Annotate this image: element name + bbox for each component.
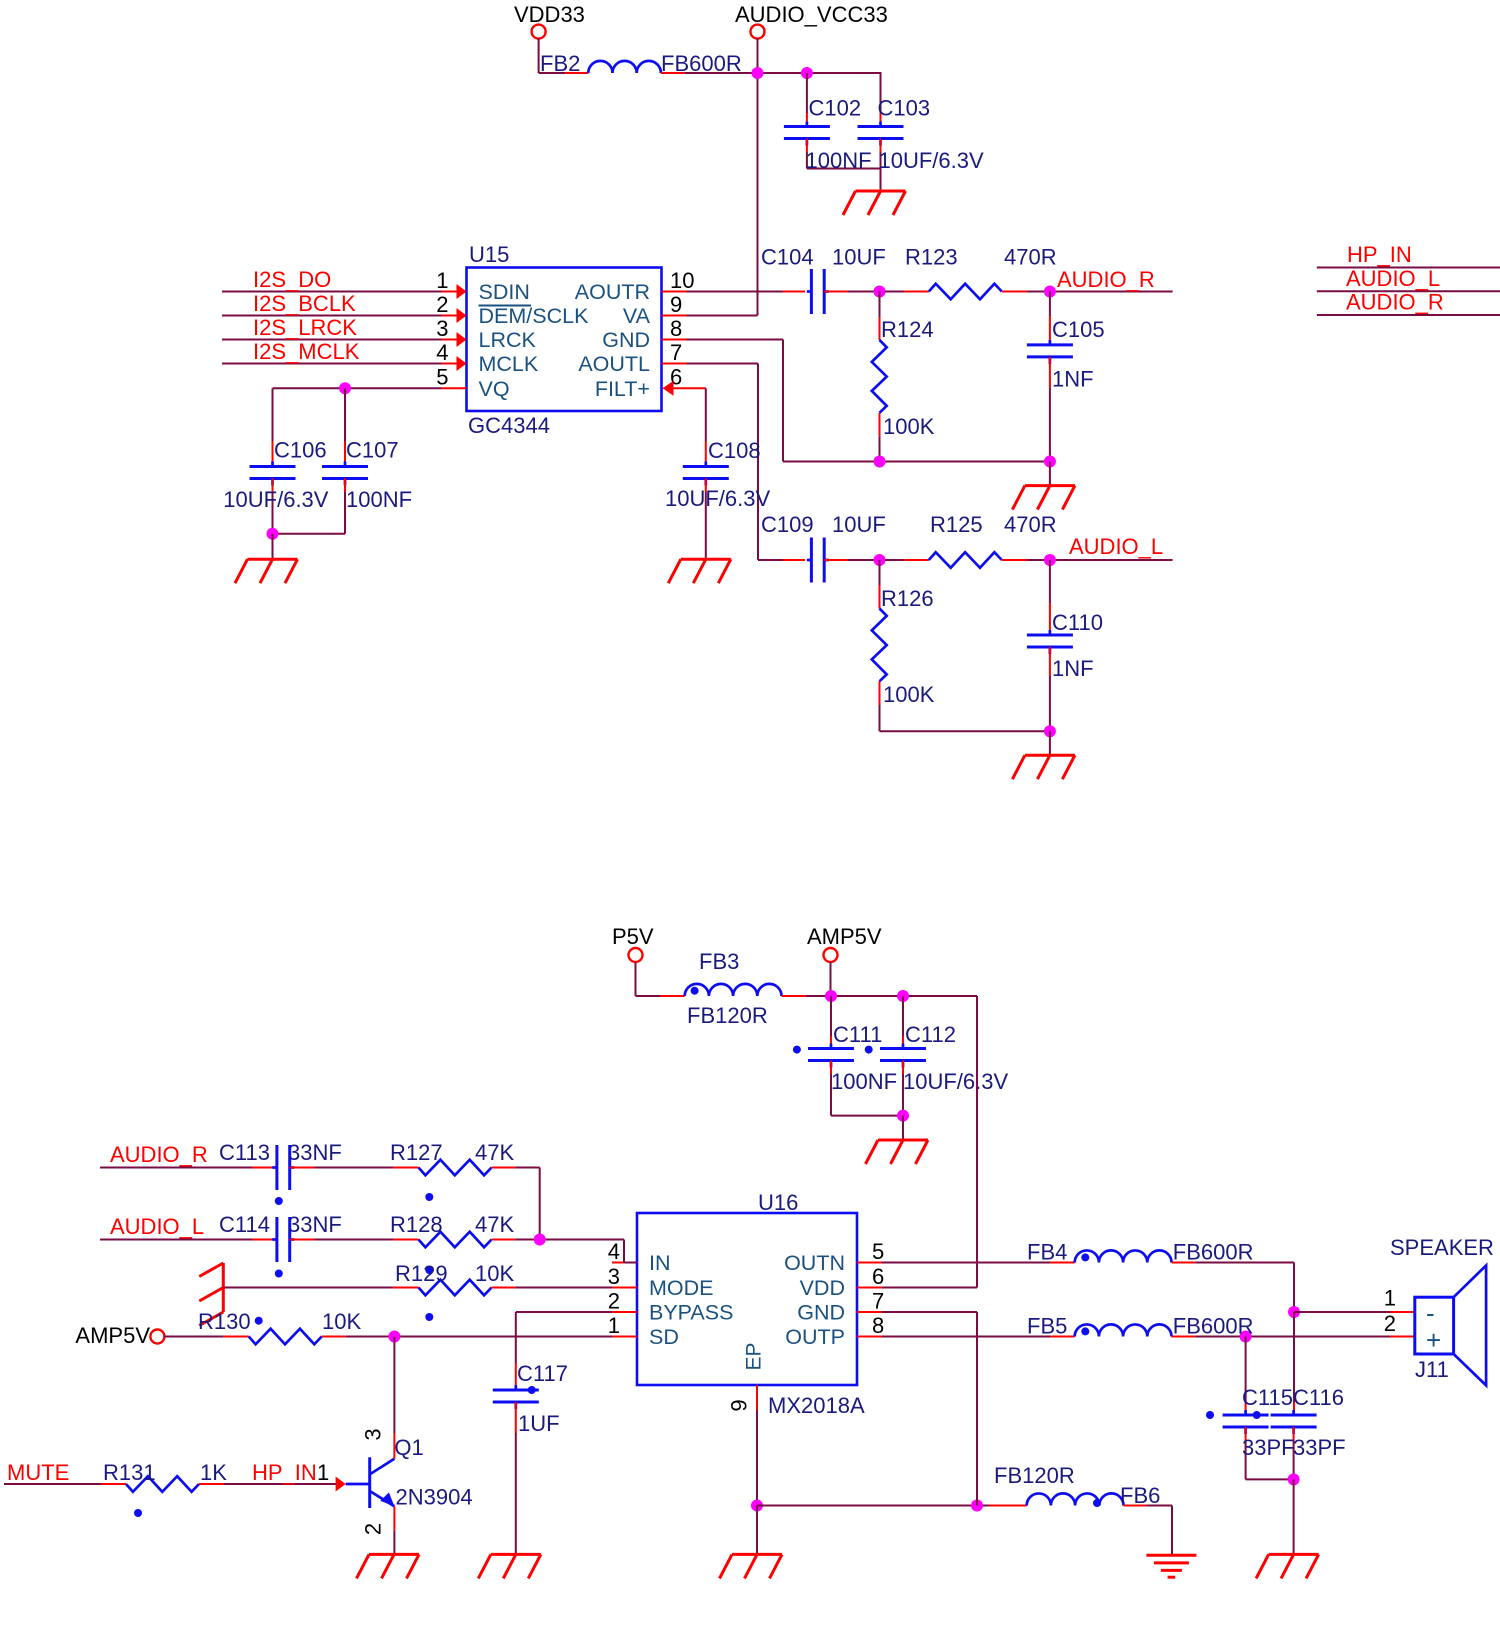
svg-text:DEM/SCLK: DEM/SCLK [479, 304, 590, 328]
svg-text:AUDIO_VCC33: AUDIO_VCC33 [735, 2, 888, 27]
svg-text:10UF/6.3V: 10UF/6.3V [665, 486, 770, 511]
svg-text:10K: 10K [475, 1261, 514, 1286]
svg-text:R125: R125 [930, 512, 983, 537]
svg-text:R131: R131 [103, 1460, 156, 1485]
svg-text:3: 3 [608, 1264, 620, 1289]
svg-text:100NF: 100NF [806, 148, 872, 173]
svg-text:2N3904: 2N3904 [396, 1485, 473, 1510]
svg-text:MODE: MODE [649, 1276, 714, 1300]
svg-text:R126: R126 [881, 586, 934, 611]
svg-text:33NF: 33NF [288, 1140, 342, 1165]
svg-text:1: 1 [317, 1460, 329, 1485]
svg-text:100K: 100K [883, 414, 935, 439]
svg-text:2: 2 [436, 292, 448, 317]
svg-text:9: 9 [727, 1399, 752, 1411]
svg-text:R130: R130 [198, 1309, 251, 1334]
svg-text:C116: C116 [1293, 1385, 1344, 1410]
svg-text:2: 2 [608, 1288, 620, 1313]
svg-text:C110: C110 [1052, 610, 1103, 635]
svg-text:FB6: FB6 [1120, 1483, 1160, 1508]
svg-text:2: 2 [1384, 1311, 1396, 1336]
svg-text:1UF: 1UF [518, 1411, 560, 1436]
svg-text:AOUTR: AOUTR [575, 280, 650, 304]
svg-text:P5V: P5V [612, 924, 654, 949]
svg-text:6: 6 [872, 1264, 884, 1289]
svg-text:MUTE: MUTE [7, 1460, 69, 1485]
svg-text:1K: 1K [200, 1460, 227, 1485]
svg-text:1NF: 1NF [1052, 367, 1094, 392]
svg-text:470R: 470R [1004, 245, 1057, 270]
svg-text:SPEAKER: SPEAKER [1390, 1235, 1494, 1260]
svg-text:LRCK: LRCK [479, 328, 537, 352]
svg-text:10UF/6.3V: 10UF/6.3V [879, 148, 984, 173]
svg-text:VQ: VQ [479, 377, 510, 401]
svg-text:7: 7 [670, 340, 682, 365]
svg-text:C113: C113 [219, 1140, 270, 1165]
svg-text:HP_IN: HP_IN [252, 1460, 317, 1485]
svg-text:VDD33: VDD33 [514, 2, 585, 27]
svg-text:SDIN: SDIN [479, 280, 530, 304]
svg-text:IN: IN [649, 1251, 671, 1275]
svg-text:8: 8 [872, 1313, 884, 1338]
svg-text:10K: 10K [322, 1309, 361, 1334]
svg-text:MX2018A: MX2018A [768, 1393, 865, 1418]
svg-text:C109: C109 [761, 512, 814, 537]
svg-text:U16: U16 [758, 1190, 798, 1215]
svg-text:33PF: 33PF [1293, 1435, 1346, 1460]
svg-text:AMP5V: AMP5V [807, 924, 882, 949]
svg-text:33NF: 33NF [288, 1212, 342, 1237]
svg-text:I2S_DO: I2S_DO [253, 267, 331, 292]
svg-text:47K: 47K [475, 1212, 514, 1237]
svg-text:3: 3 [436, 316, 448, 341]
svg-text:8: 8 [670, 316, 682, 341]
svg-text:100NF: 100NF [831, 1069, 897, 1094]
svg-text:FB600R: FB600R [661, 51, 742, 76]
svg-text:OUTP: OUTP [785, 1325, 845, 1349]
svg-text:GC4344: GC4344 [468, 413, 550, 438]
svg-text:100K: 100K [883, 682, 935, 707]
svg-text:-: - [1426, 1298, 1435, 1328]
svg-text:7: 7 [872, 1288, 884, 1313]
svg-text:FB600R: FB600R [1173, 1240, 1254, 1265]
svg-text:C108: C108 [708, 438, 761, 463]
svg-text:4: 4 [436, 340, 448, 365]
svg-text:I2S_BCLK: I2S_BCLK [253, 291, 356, 316]
svg-text:HP_IN: HP_IN [1347, 242, 1412, 267]
svg-text:9: 9 [670, 292, 682, 317]
svg-text:R128: R128 [390, 1212, 443, 1237]
svg-text:I2S_LRCK: I2S_LRCK [253, 315, 357, 340]
svg-text:AOUTL: AOUTL [578, 352, 650, 376]
svg-text:U15: U15 [469, 242, 509, 267]
svg-text:5: 5 [872, 1239, 884, 1264]
svg-text:100NF: 100NF [346, 487, 412, 512]
svg-text:C102: C102 [809, 96, 862, 121]
svg-text:10UF: 10UF [832, 245, 886, 270]
svg-text:R129: R129 [395, 1261, 448, 1286]
svg-text:FB120R: FB120R [687, 1003, 768, 1028]
svg-text:R127: R127 [390, 1140, 443, 1165]
svg-text:FB4: FB4 [1027, 1240, 1067, 1265]
svg-text:C104: C104 [761, 245, 814, 270]
svg-text:10UF/6.3V: 10UF/6.3V [223, 487, 328, 512]
svg-text:I2S_MCLK: I2S_MCLK [253, 339, 360, 364]
svg-text:OUTN: OUTN [784, 1251, 845, 1275]
svg-text:10UF: 10UF [832, 512, 886, 537]
svg-text:1: 1 [436, 268, 448, 293]
svg-text:1NF: 1NF [1052, 656, 1094, 681]
svg-text:4: 4 [608, 1239, 620, 1264]
svg-text:EP: EP [743, 1342, 766, 1370]
svg-text:AUDIO_L: AUDIO_L [110, 1214, 204, 1239]
svg-text:C111: C111 [833, 1022, 882, 1047]
svg-text:AUDIO_R: AUDIO_R [1346, 290, 1444, 315]
svg-text:C112: C112 [905, 1022, 956, 1047]
svg-text:10UF/6.3V: 10UF/6.3V [903, 1069, 1008, 1094]
svg-text:3: 3 [361, 1428, 386, 1440]
svg-text:AUDIO_R: AUDIO_R [1057, 267, 1155, 292]
svg-text:C106: C106 [274, 438, 327, 463]
svg-text:FB5: FB5 [1027, 1314, 1067, 1339]
svg-text:VDD: VDD [800, 1276, 845, 1300]
svg-text:33PF: 33PF [1242, 1435, 1295, 1460]
svg-text:MCLK: MCLK [479, 352, 539, 376]
svg-text:47K: 47K [475, 1140, 514, 1165]
svg-text:5: 5 [436, 365, 448, 390]
svg-text:C107: C107 [346, 438, 399, 463]
svg-text:AUDIO_L: AUDIO_L [1346, 266, 1440, 291]
svg-text:C114: C114 [219, 1212, 270, 1237]
svg-text:C105: C105 [1052, 317, 1105, 342]
svg-text:AUDIO_R: AUDIO_R [110, 1142, 208, 1167]
svg-text:R124: R124 [881, 317, 934, 342]
svg-text:2: 2 [361, 1523, 386, 1535]
svg-text:470R: 470R [1004, 512, 1057, 537]
svg-text:C115: C115 [1242, 1385, 1293, 1410]
svg-text:R123: R123 [905, 245, 958, 270]
svg-text:AUDIO_L: AUDIO_L [1069, 534, 1163, 559]
svg-text:GND: GND [797, 1301, 845, 1325]
svg-text:AMP5V: AMP5V [75, 1323, 150, 1348]
svg-text:+: + [1426, 1325, 1441, 1355]
svg-text:1: 1 [1384, 1286, 1396, 1311]
svg-text:C117: C117 [517, 1361, 568, 1386]
svg-text:FB3: FB3 [699, 949, 739, 974]
svg-text:VA: VA [623, 304, 651, 328]
svg-text:BYPASS: BYPASS [649, 1301, 733, 1325]
svg-text:C103: C103 [878, 96, 931, 121]
svg-text:1: 1 [608, 1313, 620, 1338]
svg-text:SD: SD [649, 1325, 679, 1349]
svg-text:FILT+: FILT+ [595, 377, 650, 401]
svg-text:GND: GND [602, 328, 650, 352]
svg-text:FB2: FB2 [540, 51, 580, 76]
svg-text:FB600R: FB600R [1173, 1314, 1254, 1339]
svg-text:FB120R: FB120R [994, 1463, 1075, 1488]
svg-text:10: 10 [670, 268, 694, 293]
svg-text:J11: J11 [1415, 1357, 1449, 1382]
svg-text:Q1: Q1 [394, 1435, 423, 1460]
